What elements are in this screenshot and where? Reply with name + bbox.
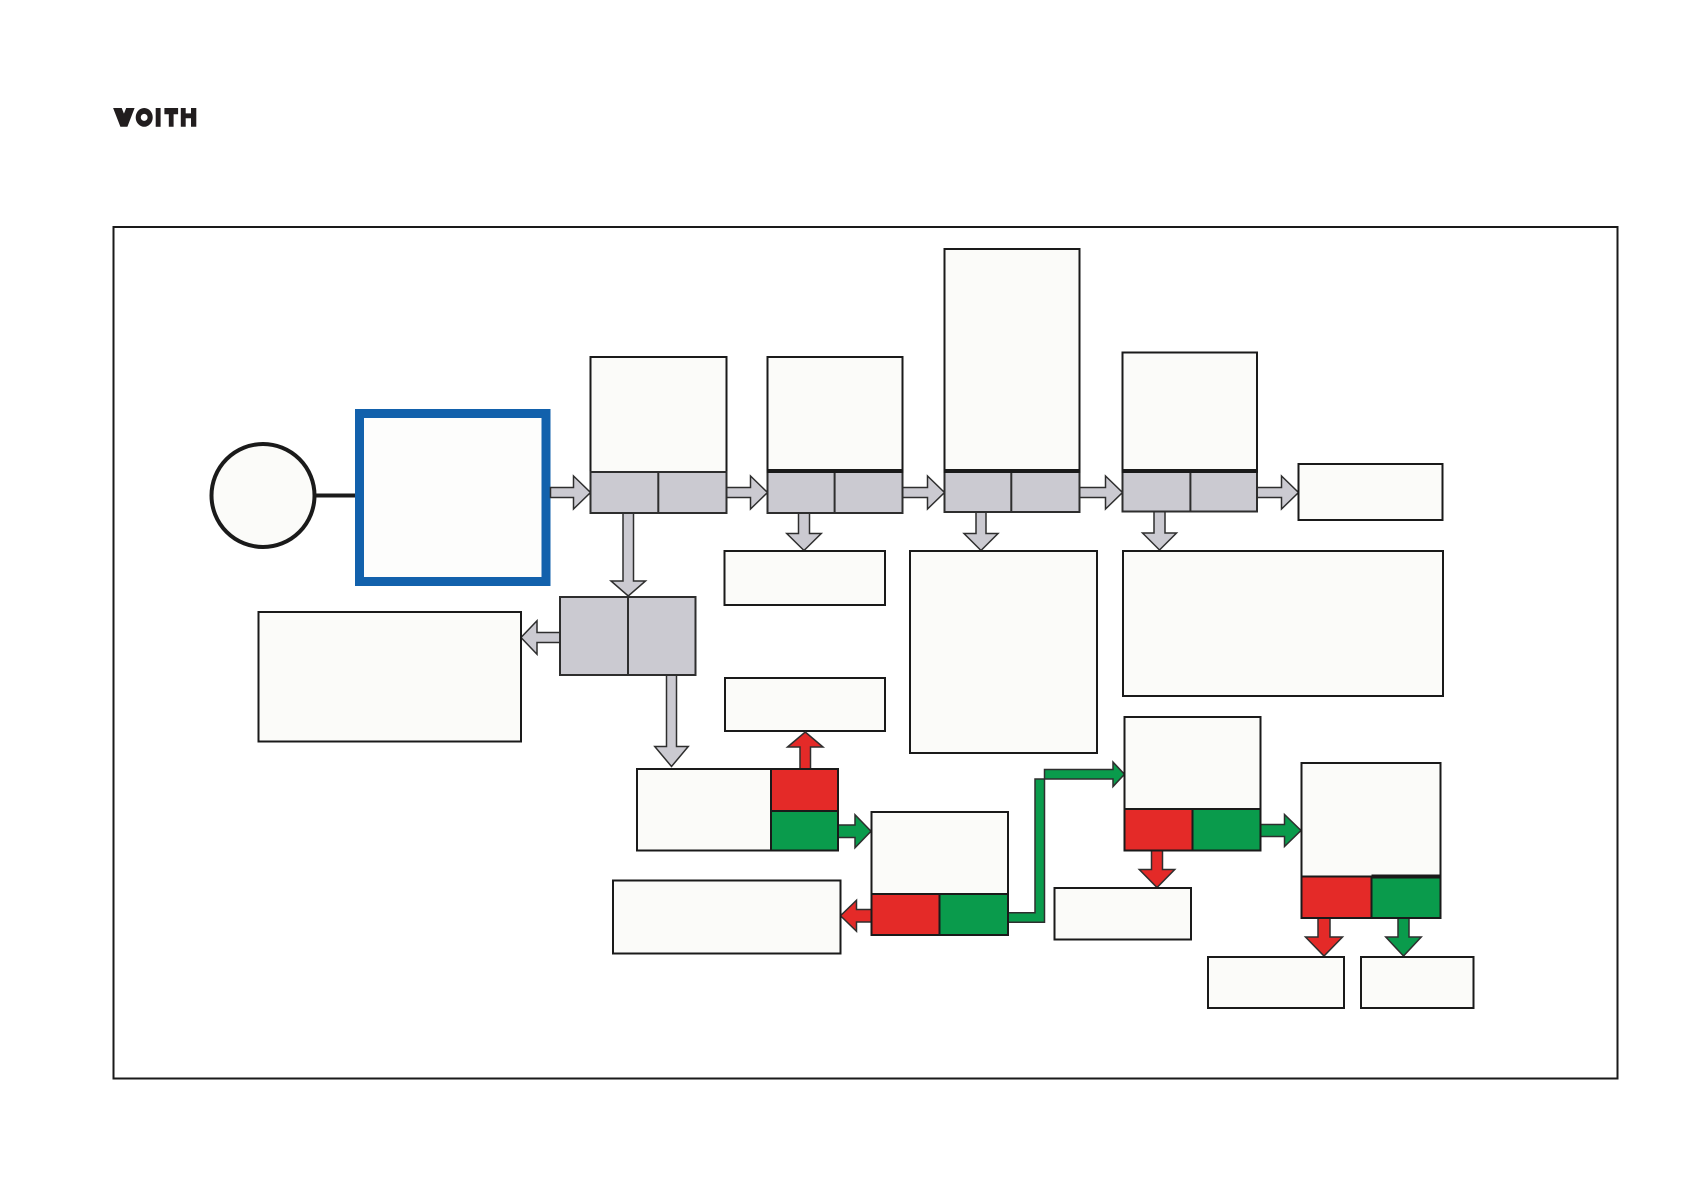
chain box1 bar divider [657, 472, 659, 513]
bottom left result box [1208, 957, 1344, 1008]
wide left box [259, 612, 522, 742]
box C white [1125, 717, 1261, 809]
gray down arrow junction box to box A [655, 675, 689, 767]
gray arrow box1 to box2 [727, 476, 768, 509]
blue highlighted box [360, 414, 547, 582]
red down arrow box D left [1306, 918, 1343, 956]
red up arrow from box A [788, 732, 824, 769]
box A green cell [771, 811, 838, 851]
gray down arrow bar3 to box below [964, 512, 998, 551]
chain box4 bar divider [1189, 471, 1191, 512]
outer frame [114, 227, 1618, 1079]
chain box4 white [1123, 353, 1258, 472]
green right arrow box A to box B [838, 815, 871, 848]
gray arrow blue box to box1 [551, 476, 591, 509]
chain box2 bar divider [834, 471, 836, 513]
box D green cell [1372, 877, 1441, 919]
gray junction box divider [627, 597, 629, 675]
gray junction two-cell box [560, 597, 696, 675]
chain box1 gray bar [591, 472, 727, 513]
chain box4 thick top edge of bar [1122, 469, 1259, 473]
chain box1 white [591, 357, 727, 472]
box B green cell [940, 894, 1009, 935]
gray long down arrow bar1 to gray junction box [611, 513, 646, 596]
red down arrow box C to box below [1139, 851, 1175, 888]
gray arrow box4 to end box [1257, 476, 1299, 509]
box C red cell [1125, 809, 1193, 851]
gray arrow box2 to box3 [903, 476, 945, 509]
left target box bottom [613, 881, 841, 954]
green elbow arrow box B to box C [1008, 762, 1125, 922]
red left arrow box B to left target box [841, 900, 872, 931]
chain box3 white tall [945, 249, 1080, 471]
box below bar3 [910, 551, 1097, 753]
box D white [1302, 763, 1441, 877]
end box right of chain [1299, 464, 1443, 520]
box B red cell [872, 894, 940, 935]
wide box below bar4 [1123, 551, 1443, 696]
small box above box A red arrow [725, 678, 885, 731]
bottom right result box [1361, 957, 1474, 1008]
box A red cell [771, 769, 838, 811]
chain box2 white [768, 357, 903, 471]
box C green cell [1193, 809, 1261, 851]
VOITH logo [113, 108, 196, 127]
gray down arrow bar2 to box below [787, 513, 822, 551]
chain box3 thick top edge of bar [944, 469, 1081, 473]
chain box4 gray bar [1123, 471, 1258, 512]
start circle [212, 444, 315, 547]
green right arrow box C to box D [1261, 815, 1302, 847]
box below bar2 [725, 551, 886, 605]
box A white [637, 769, 771, 851]
gray down arrow bar4 to box below [1143, 512, 1177, 551]
gray left arrow junction box to wide left box [521, 621, 560, 655]
chain box2 gray bar [768, 471, 903, 513]
box below box C [1055, 888, 1192, 940]
box D thick top edge over green cell [1372, 875, 1441, 879]
chain box2 thick top edge of bar [767, 469, 904, 473]
chain box3 bar divider [1010, 471, 1012, 512]
gray arrow box3 to box4 [1080, 476, 1123, 509]
green down arrow box D right [1386, 918, 1422, 956]
chain box3 gray bar [945, 471, 1080, 512]
box D red cell [1302, 877, 1372, 919]
connector line circle to blue box [314, 494, 358, 498]
box B white [872, 812, 1009, 894]
